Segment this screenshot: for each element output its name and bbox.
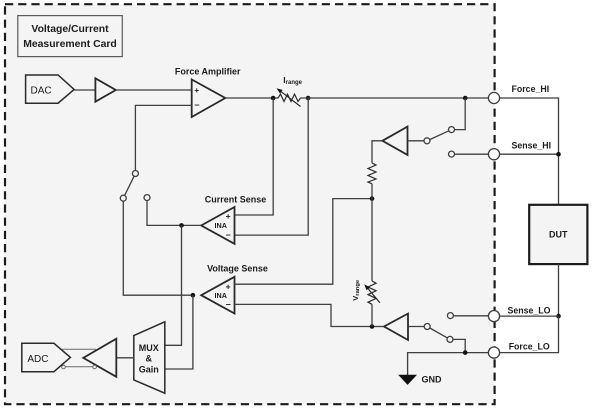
node Current Sense output xyxy=(179,223,184,228)
wire current feedback throw to current sense output xyxy=(147,201,180,226)
svg-text:INA: INA xyxy=(215,221,227,230)
svg-text:Sense_HI: Sense_HI xyxy=(512,141,552,151)
svg-text:DUT: DUT xyxy=(549,230,568,240)
svg-text:ADC: ADC xyxy=(27,354,48,365)
variable resistor V_range xyxy=(364,199,380,327)
card background xyxy=(5,4,495,404)
node low sense xyxy=(370,324,375,329)
sense high switch throw force contact xyxy=(449,127,455,133)
label Force Amplifier xyxy=(175,66,241,76)
sense high switch throw sense contact xyxy=(449,151,455,157)
DAC block xyxy=(26,75,75,103)
low sense switch throw sense contact xyxy=(447,313,453,319)
wire sense contact to Sense_HI terminal xyxy=(455,153,489,155)
low sense switch arm xyxy=(430,328,448,338)
node sense high resistor bottom xyxy=(370,196,375,201)
svg-text:+: + xyxy=(194,85,199,95)
ADC block xyxy=(22,343,71,371)
ground xyxy=(398,375,442,385)
node Voltage Sense output xyxy=(191,293,196,298)
wire Voltage Sense - input to low node xyxy=(235,304,371,326)
junction Force_LO tap xyxy=(463,350,468,355)
wire Force_HI to DUT xyxy=(499,98,558,205)
svg-text:Force Amplifier: Force Amplifier xyxy=(175,66,241,76)
op-amp Force Amplifier xyxy=(192,80,226,118)
svg-text:Voltage Sense: Voltage Sense xyxy=(207,264,268,274)
feedback switch common contact xyxy=(132,171,138,177)
svg-text:Measurement Card: Measurement Card xyxy=(23,39,117,50)
node at op-amp side of I_range xyxy=(271,96,276,101)
svg-text:–: – xyxy=(226,299,231,309)
wire Current Sense output xyxy=(182,224,202,226)
buffer ADC driver xyxy=(83,339,116,377)
wire Current Sense - input to I_range right node xyxy=(235,98,309,235)
svg-text:Gain: Gain xyxy=(139,365,159,375)
variable resistor I_range xyxy=(277,88,301,106)
node at load side of I_range xyxy=(306,96,311,101)
svg-text:GND: GND xyxy=(422,375,443,385)
low sense switch throw force contact xyxy=(447,336,453,342)
sense high switch arm xyxy=(430,131,449,140)
INA Current Sense amplifier xyxy=(201,207,234,244)
title box Voltage/Current Measurement Card xyxy=(18,16,123,57)
wire Voltage Sense output to MUX input xyxy=(165,295,193,369)
wire low buffer input to switch xyxy=(408,326,424,328)
terminal Force_HI xyxy=(488,84,549,104)
svg-text:DAC: DAC xyxy=(31,85,52,96)
feedback switch throw voltage contact xyxy=(120,195,126,201)
buffer Sense_LO amplifier xyxy=(384,314,408,340)
svg-text:&: & xyxy=(146,354,153,364)
terminal Sense_LO xyxy=(488,305,550,321)
wire op-amp - input to feedback switch xyxy=(135,105,191,170)
label Current Sense xyxy=(205,194,267,204)
wire Force_LO line to ground stem xyxy=(408,353,489,375)
wire Force_LO to DUT node xyxy=(499,316,558,353)
MUX and Gain block xyxy=(134,322,165,393)
resistor sense isolation xyxy=(368,141,382,199)
wire buffer to op-amp + input xyxy=(116,89,192,91)
label Voltage Sense xyxy=(207,264,268,274)
svg-text:Force_LO: Force_LO xyxy=(509,342,550,352)
wire Sense_HI to DUT node xyxy=(499,153,558,155)
wire DAC output to input buffer xyxy=(74,89,95,91)
feedback switch arm xyxy=(125,176,135,195)
junction Sense_LO at DUT xyxy=(556,314,561,319)
svg-text:Voltage/Current: Voltage/Current xyxy=(31,24,109,35)
wire low buffer output to low node xyxy=(372,326,384,328)
svg-text:Force_HI: Force_HI xyxy=(512,84,550,94)
sense high switch common contact xyxy=(424,138,430,144)
differential pair to ADC negative line xyxy=(62,365,97,369)
low sense switch common contact xyxy=(424,324,430,330)
wire MUX output to ADC buffer xyxy=(116,357,134,359)
DUT block xyxy=(529,205,587,264)
INA Voltage Sense amplifier xyxy=(201,277,234,314)
wire voltage feedback throw to voltage sense output xyxy=(123,201,191,295)
svg-text:MUX: MUX xyxy=(139,343,159,353)
svg-text:+: + xyxy=(226,211,231,221)
input buffer amplifier xyxy=(95,78,115,101)
wire Sense_LO to DUT node xyxy=(499,315,558,317)
label V_range xyxy=(351,279,361,301)
wire Current Sense output to MUX input xyxy=(165,225,182,345)
wire Current Sense + input to I_range left node xyxy=(235,98,274,215)
svg-text:Current Sense: Current Sense xyxy=(205,194,267,204)
wire I_range to Force_HI terminal xyxy=(300,97,488,99)
wire DUT to Sense_LO node xyxy=(558,264,560,316)
terminal Force_LO xyxy=(488,342,550,359)
svg-text:–: – xyxy=(226,230,231,240)
feedback switch throw current contact xyxy=(144,195,150,201)
svg-text:–: – xyxy=(195,99,200,109)
wire Voltage Sense + input to sense node xyxy=(235,199,371,285)
wire force contact to Force_LO line xyxy=(453,339,465,352)
wire op-amp output to I_range xyxy=(225,97,278,99)
buffer Sense_HI amplifier xyxy=(382,127,407,155)
junction Force_HI sense tap xyxy=(463,96,468,101)
wire Sense_LO terminal to low sense switch xyxy=(453,315,488,317)
svg-text:+: + xyxy=(226,281,231,291)
wire Sense_HI buffer input to switch xyxy=(408,140,425,142)
junction Sense_HI at DUT xyxy=(556,152,561,157)
wire force tap to sense high switch xyxy=(455,98,466,130)
label I_range xyxy=(283,75,302,86)
card dashed border xyxy=(5,4,495,404)
differential pair to ADC positive line xyxy=(62,348,96,350)
terminal Sense_HI xyxy=(488,141,551,160)
svg-text:Sense_LO: Sense_LO xyxy=(508,305,551,315)
